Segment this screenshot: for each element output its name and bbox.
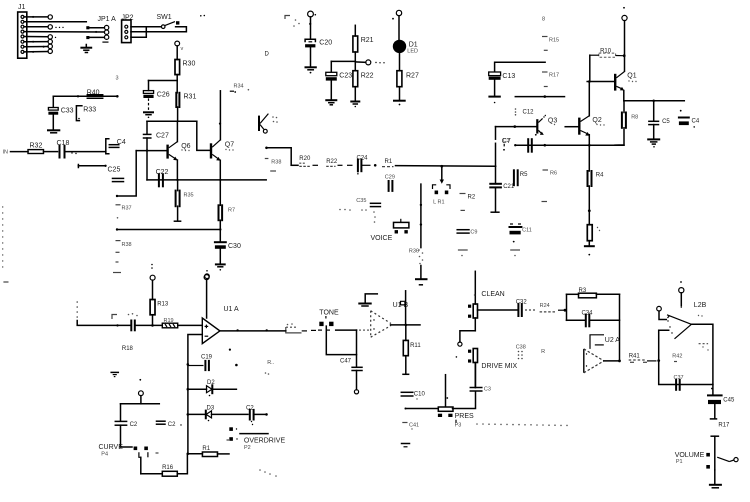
resistor R15 faded <box>542 37 559 51</box>
capacitor C5 <box>649 101 671 139</box>
resistor R2 faded <box>460 194 476 211</box>
wire JP2 pin1 to switch <box>131 26 161 28</box>
svg-text:8: 8 <box>542 17 545 23</box>
svg-text:D: D <box>265 52 270 58</box>
svg-text:U1 A: U1 A <box>224 306 240 313</box>
svg-text:R20: R20 <box>299 156 311 162</box>
svg-text:P3: P3 <box>455 423 462 429</box>
capacitor C15 <box>128 313 163 330</box>
jumper JP1A <box>86 16 116 42</box>
capacitor C27 <box>144 121 169 180</box>
svg-text:C32: C32 <box>516 300 528 306</box>
svg-text:R4: R4 <box>596 173 604 179</box>
wire J1 pin7 <box>24 44 52 48</box>
svg-text:R27: R27 <box>406 72 419 79</box>
svg-text:R..: R.. <box>267 360 275 366</box>
capacitor C20 <box>305 39 332 67</box>
capacitor C22 <box>156 169 169 187</box>
resistor R13 <box>150 264 169 326</box>
ground below VOLUME <box>710 470 721 488</box>
capacitor C39 <box>470 363 491 393</box>
svg-text:C7: C7 <box>502 138 511 145</box>
capacitor C21 <box>490 166 515 212</box>
svg-text:C23: C23 <box>339 73 352 80</box>
wire R39 stub <box>265 147 291 166</box>
transistor Q7 <box>211 91 234 180</box>
capacitor C25 plates <box>113 178 124 181</box>
resistor R12 faded stub <box>401 291 406 325</box>
resistor R41 faded <box>629 354 660 363</box>
svg-text:C21: C21 <box>503 184 515 190</box>
svg-text:R38: R38 <box>271 160 281 166</box>
svg-text:Q7: Q7 <box>225 142 234 149</box>
svg-text:R36: R36 <box>409 249 419 255</box>
ground below R9 <box>585 246 594 255</box>
svg-text:C2: C2 <box>130 422 138 428</box>
wire Q1 emitter rail <box>624 100 685 103</box>
transistor Q5 sketch <box>259 114 278 134</box>
svg-text:C18: C18 <box>57 140 70 147</box>
resistor R34 faded <box>230 84 249 93</box>
svg-text:C45: C45 <box>723 398 735 404</box>
wire J1 pin4 <box>24 31 104 33</box>
svg-text:C37: C37 <box>674 375 684 381</box>
node terminal DRIVE MIX <box>458 331 476 346</box>
svg-text:L2B: L2B <box>694 302 707 309</box>
wire CURVE tee <box>121 404 160 421</box>
wire U1A inverting input <box>187 335 203 456</box>
wire JP2 pin3 up <box>131 27 146 38</box>
svg-text:C34: C34 <box>582 310 594 316</box>
resistor R20 faded <box>299 156 318 166</box>
capacitor C33 <box>48 96 73 130</box>
svg-text:C9: C9 <box>470 230 477 236</box>
svg-text:R19: R19 <box>164 318 174 324</box>
capacitor C45 <box>708 385 735 419</box>
capacitor C41 faded <box>402 422 419 429</box>
ground below R27 <box>394 101 405 106</box>
resistor R11 <box>403 325 421 374</box>
resistor R38 faded <box>112 241 132 319</box>
ground below C33 <box>48 130 59 133</box>
capacitor C35 faded <box>339 198 380 223</box>
node terminal CURVE <box>139 391 144 404</box>
resistor R16 <box>141 454 188 476</box>
svg-text:Q3: Q3 <box>548 118 557 125</box>
wire C13 top <box>495 62 545 71</box>
svg-text:R1: R1 <box>385 159 393 165</box>
resistor R14 faded <box>286 323 316 333</box>
ground below C26 <box>144 112 153 118</box>
svg-text:R6: R6 <box>550 171 557 177</box>
svg-text:R22: R22 <box>326 159 338 165</box>
svg-text:R2: R2 <box>468 195 476 201</box>
resistor R3 <box>579 288 620 298</box>
svg-text:R24: R24 <box>540 303 550 309</box>
resistor R32 <box>28 143 58 154</box>
svg-text:C12: C12 <box>523 110 535 116</box>
svg-text:C10: C10 <box>414 392 426 398</box>
svg-text:R38: R38 <box>122 242 132 248</box>
transistor Q3 <box>535 115 557 136</box>
svg-text:Q1: Q1 <box>627 73 636 80</box>
svg-text:R18: R18 <box>122 346 134 352</box>
wire to U1B plus input dotted <box>359 329 368 330</box>
wire top rail Q3 column <box>515 95 564 98</box>
capacitor C24 <box>357 155 377 174</box>
svg-text:JP1 A: JP1 A <box>98 16 117 23</box>
resistor R22 <box>353 71 374 101</box>
svg-text:R32: R32 <box>30 143 43 150</box>
potentiometer VOICE <box>371 219 409 242</box>
resistor R42 faded <box>672 344 708 362</box>
capacitor C32 <box>478 300 528 316</box>
resistor R6 faded <box>542 170 558 202</box>
wire JP2 pin2 loop <box>131 27 186 32</box>
wire U2B output loop <box>659 324 713 384</box>
op-amp U2A <box>584 335 621 373</box>
resistor R9 <box>587 225 600 246</box>
svg-text:C41: C41 <box>409 422 419 428</box>
capacitor C11 <box>510 224 532 256</box>
svg-text:P4: P4 <box>101 452 108 458</box>
capacitor C34 <box>567 310 620 326</box>
node V+ terminal U1A area <box>205 270 210 279</box>
potentiometer DRIVE MIX <box>456 349 518 388</box>
potentiometer CURVE <box>99 444 159 458</box>
capacitor C36 vertical <box>496 127 510 167</box>
wire bias rail <box>147 120 197 122</box>
svg-text:Q2: Q2 <box>592 117 601 124</box>
resistor R39 faded <box>265 159 282 172</box>
connector J1 <box>18 4 27 58</box>
ground below C5 <box>648 139 659 147</box>
wire J1 pin5 <box>24 35 56 39</box>
wire Q1 base <box>587 80 614 83</box>
node V+ terminal above R30 <box>175 41 184 59</box>
node V+ for U1A <box>204 275 209 318</box>
svg-text:C11: C11 <box>522 228 532 234</box>
capacitor C9 <box>457 230 477 257</box>
svg-text:VOICE: VOICE <box>371 235 393 242</box>
diode D3 <box>188 406 248 422</box>
capacitor C19 <box>188 349 238 371</box>
svg-text:R35: R35 <box>184 193 194 199</box>
op-amp U1A <box>202 306 239 344</box>
svg-text:C4: C4 <box>117 139 126 146</box>
capacitor C2b <box>246 406 268 426</box>
svg-text:R37: R37 <box>122 206 132 212</box>
potentiometer PRES <box>438 375 474 429</box>
svg-text:LED: LED <box>407 49 418 55</box>
svg-text:R41: R41 <box>629 354 641 360</box>
wire J1 pin3 <box>24 25 64 29</box>
svg-text:TONE: TONE <box>319 309 339 316</box>
svg-text:R42: R42 <box>672 354 682 360</box>
resistor R10 faded <box>590 49 623 82</box>
ground below R36 <box>416 279 427 285</box>
svg-text:R22: R22 <box>361 72 374 79</box>
op-amp U2B tilted <box>667 302 707 339</box>
wire mid rail left <box>291 164 298 166</box>
wire PRES right to C39 <box>453 391 476 408</box>
wire Q2 base <box>565 126 578 128</box>
svg-text:IN: IN <box>3 150 9 156</box>
svg-text:C5: C5 <box>662 119 670 125</box>
svg-text:J1: J1 <box>18 4 26 11</box>
svg-text:C33: C33 <box>61 108 74 115</box>
capacitor C12 faded <box>515 108 534 115</box>
svg-text:R8: R8 <box>631 115 638 121</box>
diode D2 <box>188 380 237 396</box>
wire Q3 base <box>496 125 536 128</box>
svg-text:R34: R34 <box>234 84 244 90</box>
capacitor C4 <box>679 110 700 128</box>
potentiometer TONE <box>318 309 357 330</box>
wire base drop to C15 node <box>116 151 136 198</box>
capacitor C4a bracket <box>106 139 126 154</box>
potentiometer CLEAN <box>468 291 505 331</box>
ground small curve area <box>111 372 141 380</box>
svg-text:C26: C26 <box>157 92 170 99</box>
svg-text:C3: C3 <box>484 387 491 393</box>
wire C7 row <box>514 144 624 147</box>
svg-text:D3: D3 <box>207 406 215 412</box>
svg-text:C13: C13 <box>502 73 515 80</box>
svg-text:R17: R17 <box>718 422 730 428</box>
svg-text:R: R <box>541 349 545 355</box>
capacitor C30 <box>215 242 241 264</box>
resistor R7 <box>219 180 236 241</box>
resistor R21 <box>353 25 374 70</box>
capacitor C47 <box>340 330 362 394</box>
svg-text:R30: R30 <box>183 61 196 68</box>
capacitor C29 <box>385 175 395 191</box>
svg-text:C19: C19 <box>201 355 213 361</box>
wire LDR arrow <box>440 165 444 184</box>
svg-text:R11: R11 <box>410 343 421 349</box>
svg-text:R21: R21 <box>361 37 374 44</box>
LED D1 <box>393 40 418 71</box>
node terminal above C20 <box>308 11 317 39</box>
wire U2A output <box>604 360 621 363</box>
ground below C30 <box>216 264 225 270</box>
svg-text:R16: R16 <box>162 465 174 471</box>
resistor R5 <box>514 170 528 185</box>
ground near JP1A <box>81 45 91 53</box>
ground below C20 <box>306 67 316 73</box>
node terminal U2B minus <box>657 306 670 319</box>
dots bottom left <box>259 469 277 477</box>
resistor R27 <box>397 71 419 100</box>
svg-text:R1: R1 <box>202 446 210 452</box>
node terminal U2B plus <box>679 281 684 308</box>
svg-text:R5: R5 <box>520 172 528 178</box>
svg-text:3: 3 <box>116 76 119 82</box>
ground U1B plus <box>359 294 377 306</box>
svg-text:C38: C38 <box>516 345 526 351</box>
svg-text:R15: R15 <box>549 38 559 44</box>
capacitor C7 <box>502 138 532 152</box>
svg-text:C22: C22 <box>156 169 169 176</box>
node terminal above D1 <box>392 10 402 40</box>
capacitor C26 <box>143 81 169 112</box>
resistor R19 <box>162 318 202 328</box>
capacitor C38 faded <box>516 345 545 360</box>
ground bottom mid <box>402 444 410 447</box>
wire J1 pin2 <box>24 21 86 23</box>
node R21/R22 with terminal <box>331 60 384 65</box>
switch SW1 <box>157 14 206 29</box>
svg-text:C27: C27 <box>156 133 169 140</box>
svg-text:P2: P2 <box>244 445 251 451</box>
svg-text:DRIVE MIX: DRIVE MIX <box>481 363 517 370</box>
resistor R4 <box>588 171 605 225</box>
wire J1 pin6 <box>24 39 52 43</box>
transistor Q2 <box>579 82 604 172</box>
svg-text:R7: R7 <box>228 208 235 214</box>
ground below R22 <box>351 102 359 108</box>
wire U1B output <box>391 324 421 327</box>
svg-text:R13: R13 <box>157 302 169 308</box>
resistor R40 <box>53 90 118 99</box>
resistor R22b faded <box>326 159 352 166</box>
resistor R17 faded <box>542 72 559 87</box>
node terminal above Q1 <box>622 7 627 71</box>
svg-text:C2: C2 <box>168 422 176 428</box>
wire TONE wiper <box>326 326 356 355</box>
resistor R35 <box>174 180 193 221</box>
transistor Q1 <box>615 72 637 101</box>
svg-text:VOLUME: VOLUME <box>675 452 705 459</box>
wire R30 bottom rail <box>149 81 178 93</box>
wire U2A feedback right <box>619 294 621 361</box>
capacitor C37 <box>674 375 684 390</box>
potentiometer VOLUME <box>675 436 738 470</box>
wire Q6 base <box>136 149 167 151</box>
wire J1 pin8 <box>24 49 52 53</box>
capacitor C10 <box>401 392 425 400</box>
capacitor C13 <box>489 72 516 103</box>
resistor R24 faded <box>525 303 566 312</box>
resistor R26 faded <box>265 360 275 375</box>
wire PRES left stub <box>405 408 438 410</box>
wire U1A output <box>220 329 286 331</box>
potentiometer OVERDRIVE <box>229 427 285 451</box>
wire C25 stub <box>78 165 120 174</box>
svg-text:R17: R17 <box>549 73 559 79</box>
capacitor C18 <box>57 140 106 158</box>
op-amp U1B dotted <box>371 302 409 337</box>
wire emitter rail y180 <box>147 179 266 181</box>
resistor R36 faded <box>409 249 423 279</box>
transistor Q6 <box>168 121 191 180</box>
photocell LDR1 <box>433 185 451 206</box>
svg-text:P1: P1 <box>676 459 683 465</box>
svg-text:R33: R33 <box>83 107 96 114</box>
resistor R33 bracket <box>76 106 96 121</box>
resistor R1 faded <box>382 159 496 167</box>
svg-text:CLEAN: CLEAN <box>481 291 504 298</box>
svg-text:R10: R10 <box>600 49 612 55</box>
wire dotted input drop <box>76 301 130 326</box>
svg-text:v: v <box>181 46 184 52</box>
wire J1 pin1 <box>24 15 52 19</box>
resistor R30 <box>175 60 195 81</box>
resistor R37 faded <box>116 205 132 219</box>
wire U2A feedback left <box>567 294 579 320</box>
wire CLEAN rail <box>474 271 475 304</box>
svg-text:SW1: SW1 <box>157 14 172 21</box>
svg-text:Q6: Q6 <box>181 143 190 150</box>
wire dotted row <box>476 423 568 426</box>
svg-text:C35: C35 <box>356 198 366 204</box>
connector JP2 <box>122 15 134 43</box>
svg-text:C4: C4 <box>692 118 700 124</box>
wire input <box>11 151 29 153</box>
label JP3 fragment <box>285 16 300 27</box>
svg-text:C47: C47 <box>340 359 352 365</box>
svg-text:U2 A: U2 A <box>605 337 621 344</box>
svg-text:C25: C25 <box>108 167 121 174</box>
wire R37 node <box>116 228 222 230</box>
svg-text:L R1: L R1 <box>433 199 444 205</box>
svg-text:R31: R31 <box>184 94 197 101</box>
ground below C23 <box>326 100 336 105</box>
svg-text:D2: D2 <box>207 380 215 386</box>
capacitor C28 <box>157 421 182 428</box>
svg-text:OVERDRIVE: OVERDRIVE <box>244 437 286 444</box>
capacitor C23 <box>326 61 352 99</box>
svg-text:C20: C20 <box>319 39 332 46</box>
resistor R1b <box>187 440 229 457</box>
svg-text:C29: C29 <box>385 175 395 181</box>
svg-text:C30: C30 <box>228 243 241 250</box>
wire voice rail <box>420 184 422 248</box>
dotted left margin <box>2 206 9 282</box>
resistor R8 <box>615 101 638 145</box>
wire Q7 base drop <box>197 121 210 150</box>
resistor R31 <box>176 93 196 122</box>
capacitor C2 <box>115 421 138 447</box>
svg-text:CURVE: CURVE <box>99 444 124 451</box>
svg-text:PRES: PRES <box>455 413 474 420</box>
